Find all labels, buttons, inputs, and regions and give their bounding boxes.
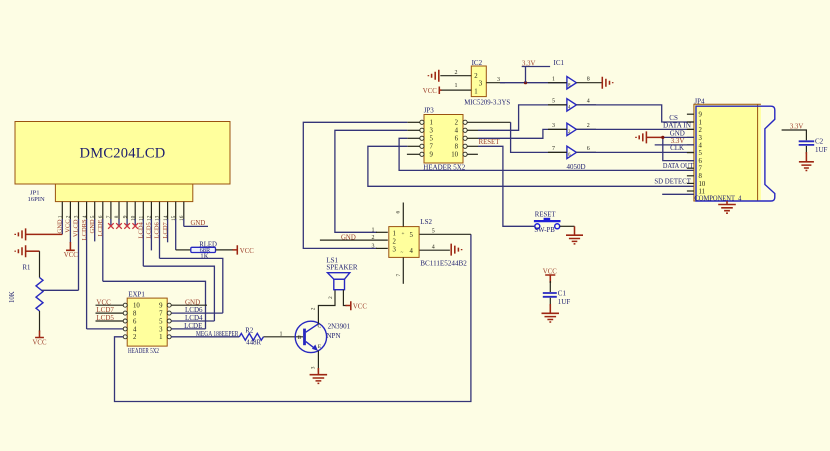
EXP1 pin 10 (123, 303, 127, 307)
svg-text:1: 1 (393, 230, 396, 237)
power VCC (speaker) (346, 301, 351, 310)
EXP1 pin 2 (123, 335, 127, 339)
svg-text:10: 10 (133, 303, 140, 310)
JP4 pin 10 (687, 182, 694, 184)
svg-text:5: 5 (552, 99, 555, 105)
JP4 pin 7 (687, 167, 694, 169)
svg-text:1: 1 (159, 334, 162, 341)
svg-text:3: 3 (372, 243, 375, 249)
svg-text:6: 6 (699, 158, 703, 165)
svg-text:6: 6 (98, 215, 104, 218)
svg-text:15: 15 (171, 215, 177, 221)
wire (LCD6 run) (160, 258, 223, 313)
svg-text:3: 3 (74, 215, 80, 218)
svg-text:3: 3 (159, 326, 163, 333)
svg-text:SD DETECT: SD DETECT (654, 178, 691, 186)
wire JP3.1 to LS2.3 (407, 121, 420, 123)
wire EXP1 pin6 stub (96, 320, 124, 322)
svg-text:5: 5 (430, 136, 434, 143)
svg-text:2: 2 (455, 120, 459, 127)
svg-text:6: 6 (587, 146, 590, 152)
wire (LCD6 into EXP1.7) (171, 312, 223, 314)
svg-text:9: 9 (122, 215, 128, 218)
JP1 pin 5 lead (94, 202, 96, 220)
EXP1 pin 8 (123, 311, 127, 315)
wire EXP1 pin8 stub (96, 312, 124, 314)
connector JP1 body (55, 184, 192, 202)
JP1 pin 15 lead (175, 202, 177, 220)
wire pin 12 (150, 219, 152, 250)
svg-text:3.3V: 3.3V (671, 137, 685, 145)
resistor RLED (191, 247, 216, 252)
svg-text:4: 4 (587, 99, 590, 105)
wire pin 13 (159, 219, 161, 258)
ground (switch) (574, 226, 576, 235)
JP1 pin 12 lead (150, 202, 152, 220)
svg-text:3: 3 (552, 123, 555, 129)
svg-text:8: 8 (587, 76, 590, 82)
power VCC (R1 bottom) (35, 331, 44, 338)
svg-text:LCD5: LCD5 (96, 314, 114, 322)
capacitor C1 1UF (549, 281, 551, 292)
svg-text:6: 6 (133, 318, 137, 325)
svg-text:SW-PB: SW-PB (534, 227, 555, 234)
LS2 pin2 wire + GND (320, 239, 388, 241)
svg-text:4: 4 (82, 215, 88, 218)
wire pin 3 (78, 219, 80, 290)
svg-text:12: 12 (147, 215, 153, 221)
wire pin 1 (61, 219, 63, 234)
svg-text:2: 2 (455, 70, 458, 76)
svg-text:GND: GND (185, 298, 200, 306)
ground (IC2 pin2) (428, 70, 438, 82)
wire (wiper to VLCD) (42, 289, 79, 291)
JP4 pin 6 (687, 160, 694, 162)
JP1 pin 9 lead (126, 202, 128, 220)
svg-text:COMPONENT 4: COMPONENT 4 (694, 195, 742, 202)
svg-text:~: ~ (401, 250, 404, 256)
JP3 pin 10 (463, 152, 467, 156)
wire (LCD4 run) (143, 266, 214, 321)
JP3 pin 6 (463, 136, 467, 140)
wire EXP1 pin10 stub (96, 304, 124, 306)
svg-text:LCD4: LCD4 (185, 314, 203, 322)
svg-text:3: 3 (699, 135, 703, 142)
wire (26, 233, 63, 235)
IC2 pin3 wire (486, 82, 505, 84)
wire pin 11 (142, 219, 144, 266)
svg-text:11: 11 (699, 188, 706, 195)
svg-text:1: 1 (430, 120, 433, 127)
svg-text:LCDRS: LCDRS (81, 219, 88, 240)
regulator IC2 MIC5209-3.3YS (471, 66, 486, 97)
wire (LCDE into EXP1.3) (171, 328, 205, 330)
wire (39, 251, 41, 277)
JP4 pin 11 (687, 190, 694, 192)
svg-text:3: 3 (479, 80, 483, 87)
wire pin 4 (86, 219, 88, 329)
svg-text:2: 2 (372, 235, 375, 241)
LS2 pin4 wire to ground (420, 249, 450, 251)
svg-text:JP3: JP3 (424, 107, 435, 115)
wire JP3.8 RESET to switch (467, 145, 478, 147)
svg-text:11: 11 (139, 216, 145, 221)
svg-text:RESET: RESET (535, 211, 557, 218)
JP4 pin 9 (687, 113, 694, 115)
svg-text:9: 9 (699, 112, 703, 119)
op-amp buffer IC1 gate 8 (567, 77, 577, 89)
wire collector up (318, 290, 335, 324)
JP3 pin 1 (420, 120, 424, 124)
buffer pin leads (548, 83, 596, 153)
svg-text:3: 3 (497, 77, 500, 83)
EXP1 pin 9 (167, 303, 171, 307)
wire (782, 130, 807, 140)
svg-text:5: 5 (699, 150, 703, 157)
wire pin 10 (134, 219, 136, 227)
wire (500, 82, 567, 84)
JP1 pin 10 lead (134, 202, 136, 220)
svg-text:10: 10 (451, 152, 458, 159)
connector EXP1 body (127, 298, 167, 346)
wire pin 5 (94, 219, 96, 241)
svg-text:2: 2 (311, 307, 317, 310)
svg-text:LCD7: LCD7 (162, 221, 169, 238)
JP1 pin 14 lead (167, 202, 169, 220)
ground (C2) (805, 152, 807, 162)
wire JP4 pin11 stub (662, 193, 694, 195)
JP4 pin 5 (687, 152, 694, 154)
wire (LCD4 into EXP1.5) (171, 320, 214, 322)
wire JP3.6 to buffer input 3 (467, 137, 478, 139)
JP1 pin 3 lead (78, 202, 80, 220)
transistor Q1 2N3901 (295, 321, 326, 352)
junction (524, 81, 527, 84)
ground (buffer1) (602, 77, 612, 89)
svg-text:VLCD: VLCD (73, 219, 80, 237)
svg-text:7: 7 (699, 166, 703, 173)
svg-text:LCDE: LCDE (184, 322, 202, 330)
svg-text:VCC: VCC (423, 88, 437, 95)
JP3 pin 5 (420, 136, 424, 140)
LCD module DMC204LCD body (15, 122, 230, 185)
ground (JP4) (726, 201, 728, 205)
svg-text:5: 5 (410, 232, 414, 239)
svg-text:1: 1 (552, 76, 555, 82)
svg-text:C2: C2 (815, 138, 824, 146)
svg-text:VCC: VCC (353, 304, 367, 311)
wire pin 2 (69, 219, 71, 243)
svg-text:2: 2 (328, 296, 334, 299)
svg-text:VCC: VCC (33, 340, 47, 347)
JP1 pin 6 lead (102, 202, 104, 220)
LS2 pin5 wire to long rail (420, 233, 471, 235)
svg-text:3: 3 (430, 128, 434, 135)
JP3 pin 3 (420, 128, 424, 132)
power VCC (RLED) (233, 245, 238, 254)
connector JP3 body (424, 115, 463, 164)
svg-text:BC111E5244B2: BC111E5244B2 (420, 259, 467, 267)
svg-text:GND: GND (191, 220, 206, 227)
svg-text:5: 5 (432, 228, 435, 234)
svg-text:7: 7 (106, 215, 112, 218)
svg-text:2: 2 (587, 123, 590, 129)
JP4 pin 1 (687, 121, 694, 123)
wire (LCDE run) (103, 281, 206, 329)
svg-text:LS2: LS2 (420, 218, 432, 226)
wire EXP1 pin1 to R2 (171, 336, 239, 338)
no-connect X pins 7-10 (108, 223, 114, 229)
wire pin 7 (110, 219, 112, 227)
wire pin 6 (102, 219, 104, 281)
svg-text:1: 1 (474, 89, 477, 96)
svg-text:SPEAKER: SPEAKER (326, 263, 357, 271)
EXP1 pin 3 (167, 327, 171, 331)
svg-text:4: 4 (455, 128, 459, 135)
svg-text:EXP1: EXP1 (128, 291, 145, 299)
svg-text:10K: 10K (9, 291, 16, 303)
op-amp buffer IC1 gate 4 (567, 99, 577, 111)
svg-text:R1: R1 (23, 264, 31, 271)
svg-text:1: 1 (58, 215, 64, 218)
wire JP3.4 to buffer input 5 (467, 129, 478, 131)
svg-text:NPN: NPN (327, 332, 341, 340)
JP3 pin 4 (463, 128, 467, 132)
wire JP3.10 stub (467, 153, 478, 155)
ground (C1) (549, 304, 551, 313)
svg-text:9: 9 (430, 152, 434, 159)
wire buffer4 out to JP4 CLK (576, 151, 694, 153)
op-amp buffer IC1 gate 2 (567, 123, 577, 135)
power VCC (JP1 pin2) (66, 242, 75, 250)
svg-text:B: B (298, 335, 302, 341)
wire 3.3V stub (522, 67, 550, 83)
svg-text:10: 10 (130, 215, 136, 221)
svg-text:1: 1 (699, 119, 702, 126)
svg-text:5: 5 (159, 318, 163, 325)
wire 3.3V stub (655, 144, 694, 146)
JP1 pin 2 lead (69, 202, 71, 220)
svg-text:VCC: VCC (65, 219, 72, 232)
JP1 pin 1 lead (61, 202, 63, 220)
wire (pin16 to GND label) (184, 225, 208, 227)
svg-text:LCD6: LCD6 (154, 221, 161, 238)
wire (560, 225, 575, 227)
wire JP3.5 to DATA OUT (407, 137, 420, 139)
wire pin 15 (175, 219, 177, 250)
svg-text:3: 3 (311, 366, 317, 369)
svg-text:2: 2 (133, 334, 137, 341)
JP1 pin 8 lead (118, 202, 120, 220)
svg-text:9: 9 (159, 303, 163, 310)
svg-text:VCC: VCC (240, 248, 254, 255)
svg-text:1UF: 1UF (815, 146, 828, 154)
svg-text:VCC: VCC (96, 298, 111, 306)
EXP1 pin 1 (167, 335, 171, 339)
svg-text:DATA IN: DATA IN (663, 122, 691, 130)
svg-text:7: 7 (159, 311, 163, 318)
svg-text:LCD5: LCD5 (146, 222, 153, 238)
svg-text:1: 1 (280, 332, 283, 338)
svg-text:7: 7 (552, 146, 555, 152)
svg-text:10: 10 (699, 181, 706, 188)
svg-text:2: 2 (393, 238, 397, 245)
buzzer LS2 body (389, 227, 419, 258)
ground (LS2 pin4) (451, 244, 461, 256)
svg-text:4: 4 (410, 248, 414, 255)
wire JP3.3 to LS2.1 (407, 129, 420, 131)
svg-text:4050D: 4050D (567, 163, 586, 171)
wire (LCDRS to EXP1.4) (87, 328, 124, 330)
svg-text:1: 1 (372, 227, 375, 233)
wire pin 8 (118, 219, 120, 227)
wire JP3.2 to buffer input 7 (467, 121, 510, 123)
svg-text:R2: R2 (245, 327, 254, 334)
svg-text:MIC5209-3.3YS: MIC5209-3.3YS (464, 98, 510, 106)
wire (176, 249, 191, 251)
svg-text:+: + (402, 231, 405, 237)
resistor R2 448R (239, 333, 263, 340)
JP3 pin 7 (420, 144, 424, 148)
JP1 pin 4 lead (86, 202, 88, 220)
JP4 pin 4 (687, 144, 694, 146)
svg-text:1UF: 1UF (558, 298, 571, 306)
wire emitter down (317, 351, 319, 372)
LS2 pin 7 bottom (402, 257, 404, 283)
svg-text:4: 4 (432, 244, 435, 250)
wire GND net + junction (636, 131, 646, 143)
wire buffer3 out to JP4 DATA IN (576, 128, 694, 130)
svg-text:448R: 448R (246, 340, 261, 347)
wire JP3.9 stub (407, 153, 420, 155)
svg-text:13: 13 (155, 215, 161, 221)
svg-text:LCDE: LCDE (97, 219, 104, 236)
svg-text:5: 5 (90, 215, 96, 218)
op-amp buffer IC1 gate 6 (567, 146, 577, 158)
power VCC (IC2) (439, 87, 441, 95)
svg-text:3.3V: 3.3V (790, 123, 803, 130)
svg-text:3: 3 (393, 246, 397, 253)
svg-text:1: 1 (455, 83, 458, 89)
svg-text:HEADER 5X2: HEADER 5X2 (128, 347, 159, 355)
svg-text:2: 2 (66, 215, 72, 218)
svg-text:6: 6 (396, 211, 402, 214)
EXP1 pin 4 (123, 327, 127, 331)
svg-text:4: 4 (133, 326, 137, 333)
wire (39, 311, 41, 332)
svg-text:GND: GND (341, 235, 356, 242)
svg-text:3.3V: 3.3V (522, 60, 535, 67)
svg-text:2: 2 (699, 127, 703, 134)
wire pin 16 (183, 219, 185, 226)
wire pin 14 (167, 219, 169, 242)
JP1 pin 13 lead (159, 202, 161, 220)
JP1 pin 16 lead (183, 202, 185, 220)
svg-text:E: E (318, 344, 322, 350)
capacitor C2 1UF (799, 141, 815, 145)
wire pin 9 (126, 219, 128, 227)
svg-text:LCD7: LCD7 (96, 306, 114, 314)
JP4 pin 3 (687, 136, 694, 138)
svg-text:16PIN: 16PIN (28, 196, 45, 203)
svg-text:VCC: VCC (64, 252, 78, 259)
JP3 pin 8 (463, 144, 467, 148)
svg-text:7: 7 (430, 144, 434, 151)
svg-text:IC1: IC1 (554, 59, 565, 67)
svg-text:2: 2 (474, 73, 478, 80)
wire JP3.7 to SD DETECT (407, 145, 420, 147)
wire (216, 249, 234, 251)
svg-text:DMC204LCD: DMC204LCD (79, 146, 165, 162)
ground (emitter) (317, 368, 319, 375)
svg-text:8: 8 (455, 144, 459, 151)
wire buffer1 out to ground (576, 82, 602, 84)
svg-text:LCD4: LCD4 (138, 221, 145, 238)
ground (JP1 pin1) (15, 228, 25, 240)
svg-text:2N3901: 2N3901 (328, 323, 351, 331)
svg-text:C: C (318, 323, 322, 329)
wire speaker right lead to VCC (343, 290, 346, 306)
JP4 pin 2 (687, 128, 694, 130)
svg-text:4: 4 (699, 142, 703, 149)
svg-text:GND: GND (89, 219, 96, 233)
wire R2 to base (264, 336, 304, 338)
svg-text:C1: C1 (558, 290, 567, 298)
svg-text:GND: GND (57, 219, 64, 233)
svg-text:DATA OUT: DATA OUT (663, 162, 694, 170)
JP4 pin 8 (687, 175, 694, 177)
svg-text:8: 8 (133, 311, 137, 318)
ground (R1 top) (15, 245, 25, 257)
IC2 pin2 wire to ground (440, 75, 471, 77)
svg-text:6: 6 (455, 136, 459, 143)
wire EXP1 pin9 stub (171, 304, 207, 306)
resistor R1 10K (pot) (36, 278, 43, 312)
EXP1 pin 6 (123, 319, 127, 323)
svg-text:14: 14 (163, 215, 169, 221)
svg-text:7: 7 (396, 274, 402, 277)
svg-text:IC2: IC2 (472, 59, 483, 67)
JP3 pin 9 (420, 152, 424, 156)
JP3 pin 2 (463, 120, 467, 124)
wire (26, 250, 40, 252)
IC2 pin1 wire to VCC (441, 89, 471, 91)
svg-text:8: 8 (114, 215, 120, 218)
svg-text:8: 8 (699, 173, 703, 180)
svg-text:RESET: RESET (479, 139, 501, 146)
LS2 pin 6 top (402, 203, 404, 227)
JP1 pin 11 lead (142, 202, 144, 220)
EXP1 pin 7 (167, 311, 171, 315)
svg-text:16: 16 (179, 215, 185, 221)
svg-text:1K: 1K (200, 253, 208, 260)
JP1 pin 7 lead (110, 202, 112, 220)
SD card outline (696, 106, 775, 201)
EXP1 pin 5 (167, 319, 171, 323)
wire buffer2 out to JP4 CS (576, 105, 694, 122)
wire EXP1 pin2 down and bottom rail (115, 234, 471, 401)
svg-text:LCD6: LCD6 (185, 306, 203, 314)
